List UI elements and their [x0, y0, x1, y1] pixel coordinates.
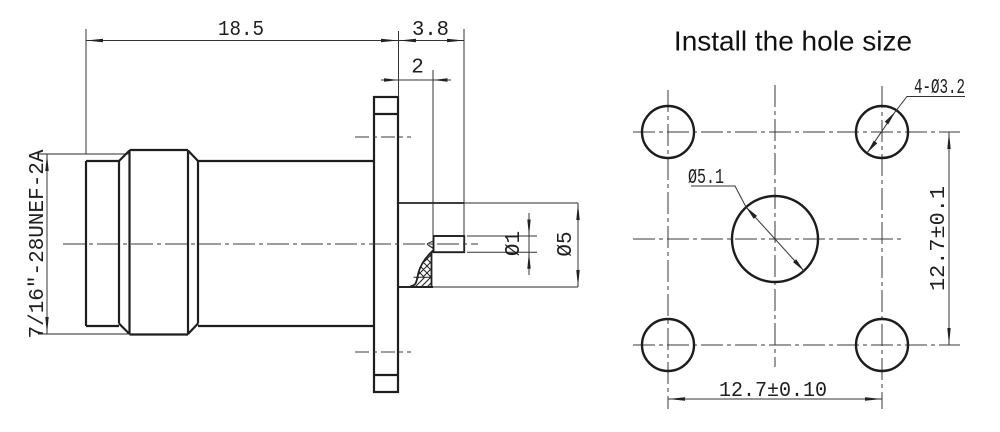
svg-text:12.7±0.1: 12.7±0.1 — [928, 186, 951, 291]
svg-text:Ø5.1: Ø5.1 — [688, 167, 724, 190]
svg-text:Install the hole size: Install the hole size — [674, 26, 912, 57]
svg-text:2: 2 — [411, 57, 424, 80]
svg-text:12.7±0.10: 12.7±0.10 — [719, 380, 827, 403]
svg-text:Ø5: Ø5 — [555, 231, 578, 256]
svg-text:7/16″-28UNEF-2A: 7/16″-28UNEF-2A — [27, 149, 50, 338]
svg-text:4-Ø3.2: 4-Ø3.2 — [914, 77, 965, 100]
svg-text:3.8: 3.8 — [412, 19, 449, 42]
svg-text:Ø1: Ø1 — [503, 231, 526, 256]
svg-text:18.5: 18.5 — [218, 19, 264, 42]
